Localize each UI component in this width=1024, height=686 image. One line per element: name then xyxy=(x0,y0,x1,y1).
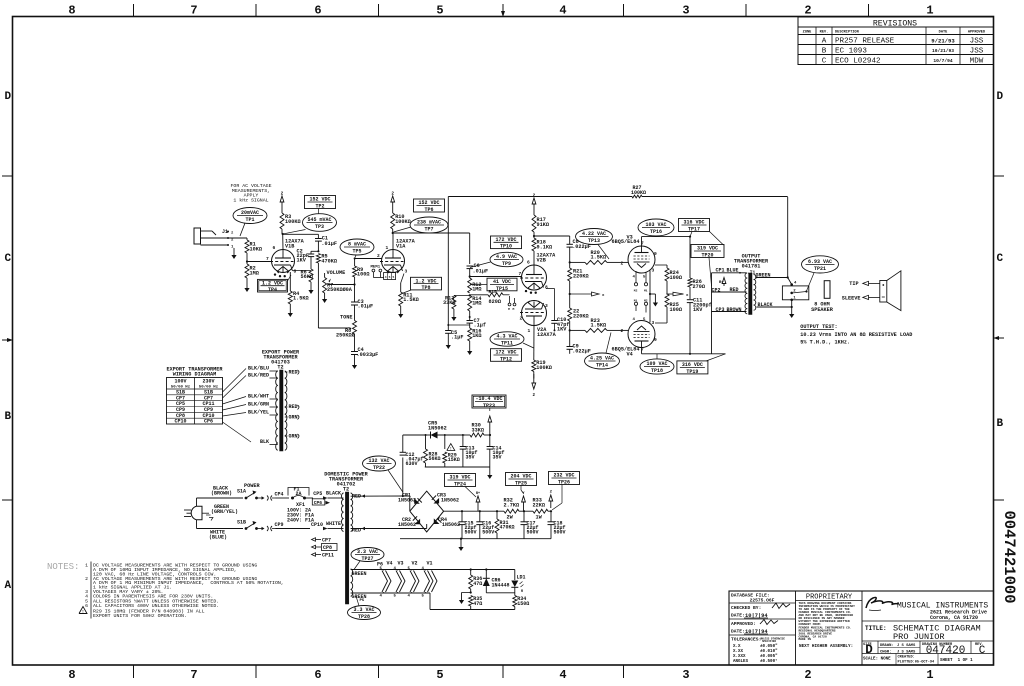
svg-text:2: 2 xyxy=(804,668,811,682)
svg-text:1N5062: 1N5062 xyxy=(428,425,447,431)
svg-text:2: 2 xyxy=(391,192,394,197)
AC plug xyxy=(184,506,213,520)
test point TP17 xyxy=(679,219,724,246)
svg-text:2: 2 xyxy=(533,194,536,199)
svg-text:!: ! xyxy=(82,611,84,615)
svg-text:4.25 VAC: 4.25 VAC xyxy=(590,356,614,362)
svg-text:9: 9 xyxy=(654,337,657,343)
cathode pins V3 xyxy=(633,271,648,293)
svg-text:3: 3 xyxy=(682,4,689,18)
svg-text:6: 6 xyxy=(314,668,321,682)
svg-text:500V: 500V xyxy=(465,530,477,536)
tone pot R8 xyxy=(336,315,357,339)
svg-text:132 VAC: 132 VAC xyxy=(368,458,389,464)
svg-text:1.2 VDC: 1.2 VDC xyxy=(262,280,283,286)
svg-text:TIP: TIP xyxy=(849,281,858,287)
resistor R14 xyxy=(468,295,482,311)
diode labels CR1-CR4 xyxy=(398,493,460,529)
resistor R6 xyxy=(301,261,314,283)
svg-text:1KV: 1KV xyxy=(297,258,307,264)
svg-text:1N5062: 1N5062 xyxy=(441,498,459,504)
svg-text:316 VDC: 316 VDC xyxy=(683,220,704,226)
net arrow 2 below R19 xyxy=(532,374,536,398)
ground supply xyxy=(458,539,463,551)
svg-text:RED: RED xyxy=(352,494,361,500)
svg-text:EC 1093: EC 1093 xyxy=(835,48,867,56)
svg-text:TP2: TP2 xyxy=(315,203,324,209)
svg-text:2.7KΩ: 2.7KΩ xyxy=(504,502,520,508)
net arrow 2 supply xyxy=(549,491,553,509)
svg-text:A: A xyxy=(5,580,12,592)
tube V1B xyxy=(266,239,305,278)
svg-text:047420: 047420 xyxy=(926,645,966,657)
svg-text:X.XXX: X.XXX xyxy=(733,655,746,659)
svg-text:V1B: V1B xyxy=(285,244,294,250)
svg-text:BLACK: BLACK xyxy=(326,491,341,497)
svg-text:BLK/GRN: BLK/GRN xyxy=(248,402,269,408)
export wiring table xyxy=(167,378,223,425)
svg-text:1.5KΩ: 1.5KΩ xyxy=(591,255,607,261)
bias rail xyxy=(425,428,490,449)
svg-text:M2: M2 xyxy=(644,300,648,303)
wire jack to grid xyxy=(228,238,272,263)
svg-text:WHITE: WHITE xyxy=(326,521,341,527)
svg-text:CP10: CP10 xyxy=(174,419,186,425)
test point TP1 xyxy=(233,208,267,237)
capacitor C6 xyxy=(467,263,489,275)
wire cathode to R4/R6 xyxy=(290,271,311,292)
svg-text:9/21/93: 9/21/93 xyxy=(931,38,955,45)
tube V3 xyxy=(612,234,658,273)
svg-text:VOLUME: VOLUME xyxy=(327,270,346,276)
svg-text:4: 4 xyxy=(385,276,387,279)
svg-text:10/21/93: 10/21/93 xyxy=(932,48,954,54)
resistor R33 xyxy=(533,498,549,521)
svg-text:LD1: LD1 xyxy=(517,575,526,581)
svg-text:MDW: MDW xyxy=(970,58,984,66)
svg-text:.0033µF: .0033µF xyxy=(357,352,379,358)
wire black secondary xyxy=(757,302,793,308)
svg-text:22575.O6F: 22575.O6F xyxy=(750,598,775,604)
svg-text:REVISIONS: REVISIONS xyxy=(873,20,917,29)
svg-text:P5: P5 xyxy=(360,599,365,603)
fuse table xyxy=(287,508,314,524)
svg-text:3: 3 xyxy=(652,320,655,326)
svg-text:TP20: TP20 xyxy=(701,252,713,258)
net arrow B+ at OT xyxy=(719,278,726,287)
revision row A xyxy=(822,38,984,46)
svg-text:DESCRIPTION: DESCRIPTION xyxy=(835,31,859,35)
svg-text:47Ω: 47Ω xyxy=(473,581,482,587)
svg-text:500V: 500V xyxy=(554,530,566,536)
svg-text:1.5KΩ: 1.5KΩ xyxy=(403,297,419,303)
svg-text:TP19: TP19 xyxy=(686,369,698,375)
svg-text:(BROWN): (BROWN) xyxy=(211,491,232,497)
resistor R4 xyxy=(288,291,308,304)
connectors CP7 CP8 CP11 xyxy=(312,538,338,559)
svg-text:PR257 RELEASE: PR257 RELEASE xyxy=(835,38,895,46)
svg-text:±0.500°: ±0.500° xyxy=(760,659,778,664)
svg-text:TP5: TP5 xyxy=(352,248,361,254)
ground under C4 xyxy=(352,360,357,369)
drawn cell xyxy=(878,641,920,655)
test point TP19 xyxy=(677,354,726,375)
svg-text:V1A: V1A xyxy=(396,244,406,250)
svg-text:232 VDC: 232 VDC xyxy=(553,473,574,479)
svg-text:3: 3 xyxy=(545,303,548,309)
resistor R11 xyxy=(399,274,419,307)
svg-text:1: 1 xyxy=(926,668,933,682)
capacitor C14 xyxy=(487,446,505,468)
svg-text:1.5KΩ: 1.5KΩ xyxy=(591,323,607,329)
svg-text:152 VDC: 152 VDC xyxy=(309,197,330,203)
signal arrow right xyxy=(666,292,689,298)
resistor R26 xyxy=(688,278,705,290)
ground under R6 xyxy=(308,282,313,294)
heater elements V4 V3 V2 V1 xyxy=(380,567,438,599)
svg-text:ECO L02942: ECO L02942 xyxy=(835,58,881,66)
svg-text:.01µF: .01µF xyxy=(321,241,337,247)
wire V2B grid xyxy=(469,275,522,277)
ground bias xyxy=(487,467,492,479)
svg-text:TP18: TP18 xyxy=(651,368,663,374)
tube V2A xyxy=(520,301,557,339)
svg-text:TP11: TP11 xyxy=(501,340,513,346)
svg-text:-10.4 VDC: -10.4 VDC xyxy=(475,396,502,402)
test point TP8 xyxy=(401,277,442,294)
capacitor C7 xyxy=(467,311,486,329)
zone numbers bottom xyxy=(68,668,933,682)
svg-text:±0.005": ±0.005" xyxy=(760,654,778,659)
svg-text:POWER: POWER xyxy=(244,483,260,489)
capacitor C2 xyxy=(297,249,319,264)
svg-text:172 VDC: 172 VDC xyxy=(495,350,516,356)
table lead lines xyxy=(223,369,252,443)
ground heater xyxy=(459,593,471,605)
svg-text:6BQ5/EL84: 6BQ5/EL84 xyxy=(612,239,640,245)
svg-text:7: 7 xyxy=(190,4,197,18)
resistor R12 xyxy=(468,269,482,293)
svg-text:DATE:: DATE: xyxy=(731,629,745,635)
test point TP27 xyxy=(351,548,384,570)
svg-text:8: 8 xyxy=(68,4,75,18)
svg-text:±0.050": ±0.050" xyxy=(760,644,778,649)
svg-text:1: 1 xyxy=(85,563,88,569)
svg-text:100KΩ: 100KΩ xyxy=(536,365,552,371)
connector CP9 xyxy=(255,522,310,531)
svg-text:.01µF: .01µF xyxy=(473,269,489,275)
svg-text:100Ω: 100Ω xyxy=(670,275,682,281)
svg-text:TP24: TP24 xyxy=(454,481,466,487)
net arrow Y xyxy=(522,492,526,511)
svg-text:.022µF: .022µF xyxy=(572,348,591,354)
svg-text:545 mVAC: 545 mVAC xyxy=(307,217,331,223)
feedback wire xyxy=(787,197,789,278)
output test note xyxy=(800,324,912,345)
svg-text:MEM1: MEM1 xyxy=(371,266,381,270)
ground at cathode rail xyxy=(650,294,658,307)
plug wires xyxy=(197,498,244,529)
svg-text:5: 5 xyxy=(436,668,443,682)
diode CR6 xyxy=(483,568,510,592)
svg-text:1MΩ: 1MΩ xyxy=(250,271,259,277)
svg-text:B: B xyxy=(5,411,12,423)
pin box V1A xyxy=(384,273,396,280)
speaker symbol xyxy=(880,271,901,311)
svg-text:C: C xyxy=(979,645,986,657)
svg-text:152 VDC: 152 VDC xyxy=(418,200,439,206)
capacitor C12 xyxy=(400,452,424,467)
svg-text:.1µF: .1µF xyxy=(451,335,463,341)
svg-text:CREATED:: CREATED: xyxy=(898,656,915,660)
svg-text:7: 7 xyxy=(190,668,197,682)
label black primary xyxy=(326,491,341,497)
svg-text:(BLUE): (BLUE) xyxy=(209,535,227,541)
label green top xyxy=(352,571,367,577)
svg-text:172 VDC: 172 VDC xyxy=(495,237,516,243)
svg-text:CP4: CP4 xyxy=(275,491,284,497)
svg-text:1MΩ: 1MΩ xyxy=(472,287,481,293)
export primary leads xyxy=(248,366,278,446)
svg-text:SPEAKER: SPEAKER xyxy=(811,307,834,313)
wire red top xyxy=(351,494,410,500)
svg-text:.01µF: .01µF xyxy=(358,304,374,310)
resistor R35 xyxy=(469,596,483,610)
svg-text:ZONE: ZONE xyxy=(803,31,812,35)
svg-text:CP7: CP7 xyxy=(322,538,331,544)
svg-text:6.93 VAC: 6.93 VAC xyxy=(808,259,832,265)
ground under R16 xyxy=(467,341,472,355)
connector CP10 xyxy=(311,522,344,530)
svg-text:041781: 041781 xyxy=(742,264,761,270)
svg-text:WIRING DIAGRAM: WIRING DIAGRAM xyxy=(173,372,217,378)
part number 0047421000 xyxy=(1000,510,1018,603)
svg-text:6: 6 xyxy=(527,260,530,266)
svg-text:103 VAC: 103 VAC xyxy=(645,222,666,228)
zone letters left xyxy=(5,91,12,592)
revision row B xyxy=(822,48,984,56)
test point TP7 xyxy=(394,217,449,233)
capacitor C5 xyxy=(445,324,470,341)
svg-text:TP16: TP16 xyxy=(650,229,662,235)
resistor R5 xyxy=(316,254,337,265)
net arrow 2 above R10 xyxy=(391,192,395,207)
diode CR5 xyxy=(427,421,465,439)
svg-text:RED: RED xyxy=(289,370,298,376)
svg-text:ANGLES: ANGLES xyxy=(733,660,749,664)
zone ticks right xyxy=(994,176,1005,500)
svg-text:56KΩ: 56KΩ xyxy=(301,274,313,280)
tube V2B xyxy=(519,253,557,294)
wire volume wiper xyxy=(328,283,356,285)
test point TP3 xyxy=(284,214,337,234)
net arrow 2 above R17 xyxy=(532,194,536,212)
svg-text:CHECKED BY:: CHECKED BY: xyxy=(731,605,761,611)
svg-text:!: ! xyxy=(450,447,452,451)
wire plate to C1 xyxy=(283,234,319,238)
svg-text:RED: RED xyxy=(289,404,298,410)
svg-text:1 kHz SIGNAL: 1 kHz SIGNAL xyxy=(233,197,268,203)
svg-text:2: 2 xyxy=(804,4,811,18)
svg-text:BLK: BLK xyxy=(260,439,269,445)
ground under R11 xyxy=(398,306,403,318)
svg-text:PLOTTED:05-OCT-94: PLOTTED:05-OCT-94 xyxy=(898,661,936,665)
svg-text:1N5062: 1N5062 xyxy=(398,498,416,504)
scale cell xyxy=(862,654,994,666)
svg-text:1KV: 1KV xyxy=(693,307,703,313)
revisions title xyxy=(873,20,917,29)
svg-text:TP17: TP17 xyxy=(688,226,700,232)
capacitor C16 xyxy=(476,511,494,539)
svg-text:CHGR:: CHGR: xyxy=(880,651,891,655)
net arrow 2 above R3 xyxy=(280,192,284,207)
svg-text:CP10: CP10 xyxy=(311,522,323,528)
svg-text:1: 1 xyxy=(386,245,389,251)
svg-text:1: 1 xyxy=(528,328,531,334)
ground at jack xyxy=(231,248,236,259)
svg-text:10.23 Vrms INTO AN 8Ω RESISTIV: 10.23 Vrms INTO AN 8Ω RESISTIVE LOAD xyxy=(800,332,912,338)
svg-text:TP21: TP21 xyxy=(814,266,826,272)
svg-text:8: 8 xyxy=(294,269,297,275)
capacitor C15 xyxy=(459,511,477,539)
svg-text:V2B: V2B xyxy=(537,258,546,264)
capacitor C1 xyxy=(315,236,337,253)
svg-text:CP9: CP9 xyxy=(275,522,284,528)
svg-text:EXPORT UNITS FOR 50Hz OPERATIO: EXPORT UNITS FOR 50Hz OPERATION. xyxy=(93,613,187,619)
resistor R24 xyxy=(665,268,682,294)
svg-text:X.XX: X.XX xyxy=(733,650,744,654)
svg-text:91KΩ: 91KΩ xyxy=(537,222,549,228)
svg-text:GREEN: GREEN xyxy=(352,571,367,577)
svg-text:CP6: CP6 xyxy=(204,419,213,425)
resistor R3 xyxy=(280,206,301,229)
svg-text:DATE:: DATE: xyxy=(731,613,745,619)
size cell xyxy=(863,641,878,657)
svg-text:4: 4 xyxy=(559,4,566,18)
wire CP1 blue xyxy=(712,267,747,273)
heater labels xyxy=(377,561,433,568)
svg-text:2: 2 xyxy=(621,261,624,267)
wire grid V1A xyxy=(354,253,382,266)
svg-text:JSS: JSS xyxy=(970,38,984,46)
svg-text:TP12: TP12 xyxy=(500,356,512,362)
company name xyxy=(862,602,994,622)
test point TP16 xyxy=(638,219,674,237)
jumper MEM V2 xyxy=(508,296,516,311)
proprietary cell xyxy=(796,594,863,650)
svg-text:470KΩ: 470KΩ xyxy=(500,525,515,531)
wire R13 branch xyxy=(454,294,471,296)
resistor R30 xyxy=(465,423,491,438)
capacitor C4 xyxy=(351,334,378,360)
svg-text:6: 6 xyxy=(85,603,88,609)
svg-text:1W: 1W xyxy=(536,515,543,521)
svg-text:319 VDC: 319 VDC xyxy=(697,246,718,252)
svg-text:4.3 VAC: 4.3 VAC xyxy=(496,334,517,340)
wire CP3 brown xyxy=(712,307,747,313)
svg-text:CP6: CP6 xyxy=(314,500,323,506)
test point TP6 xyxy=(414,199,445,213)
ground under R2 xyxy=(244,278,249,292)
svg-text:2: 2 xyxy=(520,316,523,322)
warning triangle R29 xyxy=(447,444,455,452)
test point TP13 xyxy=(576,229,613,260)
LED LD1 xyxy=(511,570,525,596)
svg-text:CP11: CP11 xyxy=(322,553,334,559)
svg-text:GRN: GRN xyxy=(289,415,298,421)
svg-text:220KΩ: 220KΩ xyxy=(573,313,589,319)
export table title xyxy=(166,367,223,378)
net arrow B+ rail xyxy=(476,492,480,511)
svg-text:TP15: TP15 xyxy=(496,286,508,292)
signal arrow x xyxy=(569,292,605,298)
svg-text:TP3: TP3 xyxy=(315,224,324,230)
resistor R32 xyxy=(504,498,520,521)
wire V3 plate xyxy=(642,236,692,247)
capacitor C13 xyxy=(460,446,478,468)
svg-text:35V: 35V xyxy=(493,455,502,461)
test point TP21 xyxy=(802,256,839,291)
svg-text:1KV: 1KV xyxy=(557,327,567,333)
svg-text:T2: T2 xyxy=(343,487,349,493)
heater top rail xyxy=(351,569,515,571)
svg-text:TP8: TP8 xyxy=(421,285,430,291)
checked by cell xyxy=(729,603,796,619)
svg-text:M2: M2 xyxy=(634,290,638,293)
svg-text:109 VAC: 109 VAC xyxy=(646,361,667,367)
test point TP23 xyxy=(472,395,506,409)
svg-text:V3: V3 xyxy=(398,561,404,567)
svg-text:.022µF: .022µF xyxy=(572,244,591,250)
tip arrow xyxy=(849,281,880,287)
svg-text:8 mVAC: 8 mVAC xyxy=(348,242,366,248)
svg-text:S1A: S1A xyxy=(237,489,246,495)
revisions table frame xyxy=(798,17,994,65)
svg-text:8: 8 xyxy=(68,668,75,682)
speaker label xyxy=(811,301,834,313)
power switch S1B xyxy=(237,520,258,530)
output transformer label xyxy=(734,254,769,276)
svg-text:6: 6 xyxy=(273,245,276,251)
svg-text:319 VDC: 319 VDC xyxy=(449,475,470,481)
svg-text:M1: M1 xyxy=(634,300,638,303)
svg-text:2: 2 xyxy=(281,192,284,197)
svg-text:238 mVAC: 238 mVAC xyxy=(417,220,441,226)
svg-text:V2: V2 xyxy=(412,561,418,567)
title cell xyxy=(862,624,994,643)
resistor R34 xyxy=(513,596,530,610)
tube V1A xyxy=(380,239,416,275)
svg-text:SHEET 1 OF 1: SHEET 1 OF 1 xyxy=(940,659,973,663)
cathode pins V4 xyxy=(633,300,648,322)
svg-text:7: 7 xyxy=(266,256,269,262)
svg-text:240V: F1A: 240V: F1A xyxy=(287,518,314,524)
svg-text:270Ω: 270Ω xyxy=(693,284,705,290)
capacitor C8 xyxy=(567,239,591,268)
resistor R19 xyxy=(532,326,552,379)
test point TP22 xyxy=(363,456,403,492)
svg-text:X.X: X.X xyxy=(733,645,741,649)
approved cell xyxy=(729,620,796,636)
wire tone wiper xyxy=(318,327,348,329)
fuse F1 xyxy=(288,486,313,508)
svg-text:TOLERANCES:: TOLERANCES: xyxy=(731,637,761,643)
svg-text:41 VDC: 41 VDC xyxy=(493,279,511,285)
svg-text:DATE: DATE xyxy=(939,31,948,35)
svg-text:3.3 VAC: 3.3 VAC xyxy=(357,549,378,555)
svg-text:9: 9 xyxy=(654,251,657,257)
svg-text:JSS: JSS xyxy=(970,48,984,56)
